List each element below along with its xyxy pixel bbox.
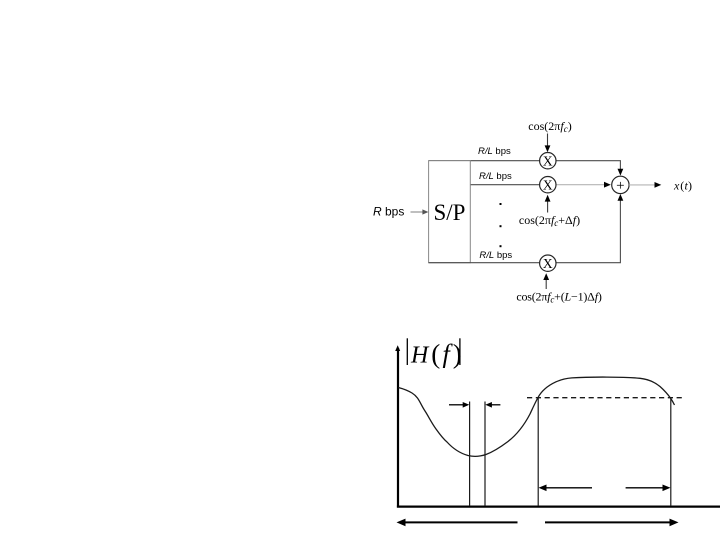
marker line: passband right edge <box>670 399 672 507</box>
mixer M1 <box>540 153 556 169</box>
node: vertical ellipsis dots between branches <box>500 203 502 205</box>
marker line: notch right edge <box>484 402 486 507</box>
svg-text:H: H <box>410 342 430 368</box>
arrow: lower band span (points left, below axis) <box>403 521 518 523</box>
svg-text:cos(2πfc): cos(2πfc) <box>528 119 571 134</box>
arrow: upper band span (points right, below axis) <box>545 521 672 523</box>
svg-text:cos(2πfc+(L−1)Δf): cos(2πfc+(L−1)Δf) <box>516 289 601 304</box>
curve: channel magnitude response H(f) <box>398 377 674 456</box>
wire: carrier 1 into mixer M1 (down arrow) <box>547 134 549 148</box>
x axis <box>397 506 720 508</box>
svg-text:R/L bps: R/L bps <box>478 146 511 157</box>
wire: branch 1 from S/P to mixer M1 <box>429 160 540 162</box>
wire: carrier 2 into mixer M2 (up arrow) <box>547 200 549 213</box>
arrow: passband width right half (points right) <box>626 487 664 489</box>
marker line: notch left edge <box>469 402 471 507</box>
svg-text:R bps: R bps <box>373 205 404 219</box>
svg-text:R/L bps: R/L bps <box>479 171 512 182</box>
svg-text:S/P: S/P <box>434 200 466 225</box>
mixer M3 <box>540 255 556 271</box>
arrow: passband width left half (points left) <box>545 487 592 489</box>
wire: carrier L into mixer M3 (up arrow) <box>545 279 547 290</box>
label |H(f)| <box>406 338 408 365</box>
svg-text:): ) <box>688 178 692 192</box>
svg-text:+: + <box>616 178 624 194</box>
adder (summer) <box>612 176 629 193</box>
arrow: notch width right (points left) <box>491 404 501 406</box>
svg-text:cos(2πfc+Δf): cos(2πfc+Δf) <box>519 213 580 228</box>
wire: R bps input arrow into S/P <box>411 211 425 213</box>
S/P converter box <box>429 161 471 263</box>
wire: branch 2 from S/P to mixer M2 <box>470 184 539 186</box>
svg-text:X: X <box>543 154 553 169</box>
y axis with up arrow <box>397 348 399 508</box>
wire: mixer M3 output to corner below adder <box>556 200 620 263</box>
svg-text:x: x <box>673 178 680 192</box>
wire: mixer M2 output to adder (faint) <box>556 184 604 186</box>
wire: branch L from S/P to mixer M3 <box>429 262 540 264</box>
marker line: passband left edge <box>537 398 539 506</box>
mixer M2 <box>540 177 556 193</box>
dashed level line <box>527 397 683 399</box>
arrow: notch width left (points right) <box>449 404 464 406</box>
svg-text:(: ( <box>431 339 440 369</box>
svg-text:X: X <box>543 256 553 271</box>
svg-text:X: X <box>543 178 553 193</box>
svg-text:R/L bps: R/L bps <box>479 250 512 261</box>
wire: mixer M1 output to corner above adder <box>556 161 620 170</box>
wire: adder output x(t) arrow <box>629 184 654 186</box>
